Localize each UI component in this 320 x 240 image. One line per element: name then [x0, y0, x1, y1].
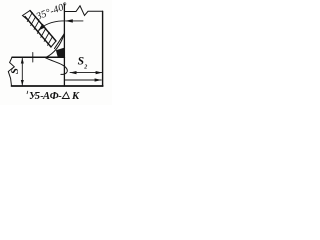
vertex tick on plate surface — [32, 53, 34, 63]
weld designation text — [26, 91, 29, 94]
angle arc arrowhead — [38, 24, 45, 31]
background — [0, 0, 112, 105]
angle dimension arrow tail — [66, 20, 84, 22]
K dimension line — [64, 79, 101, 81]
vertical plate left edge (with angle extension above) — [63, 4, 65, 86]
leader curve — [46, 58, 68, 75]
bottom plate bottom edge — [12, 85, 103, 87]
svg-text:S: S — [78, 56, 84, 68]
K dim arrow right — [95, 78, 102, 81]
bottom plate left break line — [8, 57, 14, 86]
diagonal plate lower edge — [25, 17, 51, 48]
vertical plate top edge with break zigzag — [64, 6, 102, 16]
weld face arc — [46, 34, 65, 58]
svg-text:-: - — [58, 91, 62, 102]
angle arrow head at vertical line — [65, 19, 73, 22]
angle dimension arc — [39, 21, 65, 30]
S dimension line — [21, 57, 23, 86]
bottom plate top edge — [12, 56, 64, 58]
S1 dim arrow left — [70, 71, 77, 74]
S1 dim arrow right — [96, 71, 103, 74]
svg-text:2: 2 — [83, 64, 87, 70]
S1 dimension line — [70, 72, 102, 74]
triangle symbol — [62, 92, 69, 98]
svg-text:К: К — [71, 91, 80, 102]
S dim arrow down — [21, 80, 24, 86]
svg-text:S: S — [9, 68, 21, 74]
diagonal plate tip bevel — [51, 41, 56, 47]
groove face line — [55, 34, 65, 49]
vertical plate right edge — [102, 11, 104, 86]
diagonal plate upper edge — [30, 11, 56, 42]
diagonal plate end break — [23, 11, 31, 21]
weld fill — [56, 48, 65, 58]
arrowheads — [21, 19, 103, 85]
S dim arrow up — [21, 58, 24, 64]
hatching of diagonal plate — [27, 12, 53, 45]
